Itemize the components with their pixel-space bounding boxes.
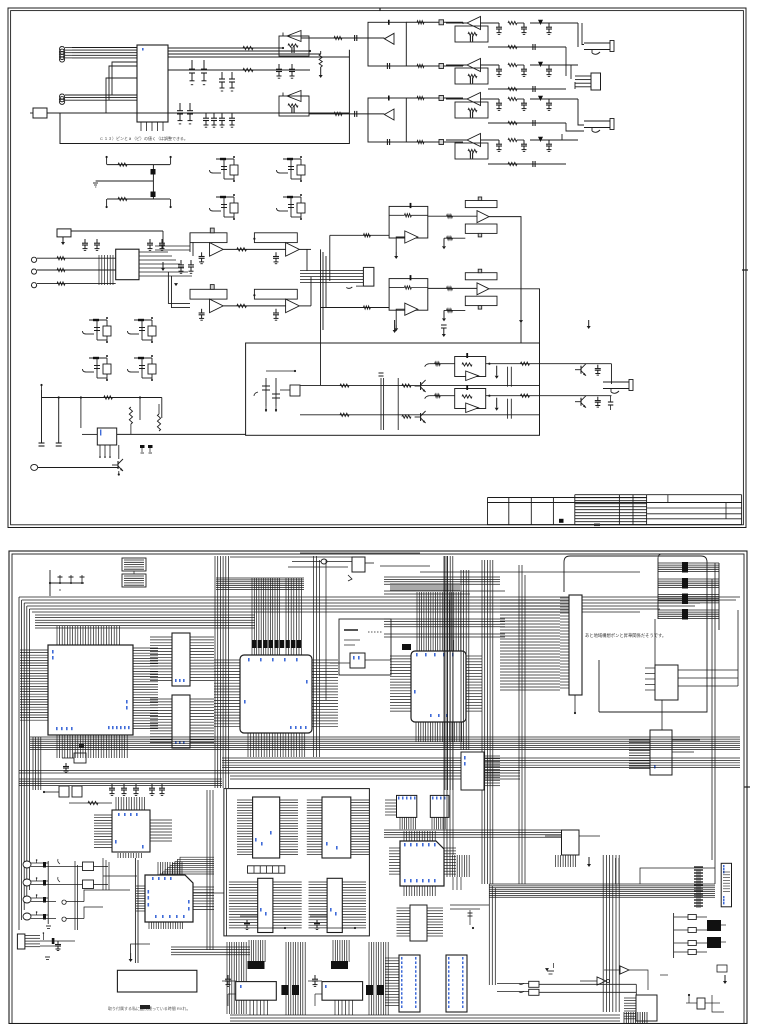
transistor Q11 [575,401,581,403]
X2 input hooks [31,257,36,262]
wire J1 lower input [444,237,465,239]
bottom DIP F2 [446,955,467,1012]
FET Q5 [103,326,111,336]
vertical bus right of U3 [313,556,315,757]
left feeder components [380,378,382,430]
DIP D3 body [258,878,273,932]
vertical bus center-left [214,556,216,788]
FET Q4 [297,203,305,213]
U3 left pin hatch [214,659,240,661]
D2 left hatch [307,799,322,801]
connector J1 input hooks [59,47,64,52]
bus mid-left down [32,737,34,790]
title block table [488,497,647,499]
voltage reference box [57,229,71,237]
U7 left pin hatch [136,885,145,887]
bus mid band extra [19,770,520,772]
D4 right hatch [342,881,366,883]
bus corner verticals [488,884,490,985]
diode D1 [538,20,543,25]
wire J1 output [489,217,521,343]
op-amp C1 with feedback loop [368,22,406,66]
transistor Q12 [415,385,421,387]
op-amp D2 output stage [446,64,467,66]
bus into E blocks [248,940,250,962]
wire J2 lower input [444,309,465,311]
capacitor C20 pair [140,445,145,448]
output jack JK2 [584,120,610,122]
wire D3 lower [488,122,566,124]
F1 left hatch [385,957,399,959]
box M2 [650,730,672,775]
wire D1 lower [488,46,566,48]
diode D4 [538,137,543,142]
U1 right pin hatch [133,647,158,649]
op-amp B2 [287,91,301,102]
U3 right pin hatch [312,659,338,661]
X1 bottom pin stubs [140,122,142,131]
U4 top pin bundle [416,592,418,651]
DIP pair bottom hatch [399,817,401,829]
IC U2B [172,695,190,748]
svg-text:取り付属する私に、: 取り付属する私に、 [108,1005,144,1011]
wire input H2 [321,307,390,309]
capacitor row on loop [205,113,207,118]
corner bundle U7 [160,874,214,875]
socket strip [248,866,285,873]
U4 left pin hatch [390,655,411,657]
U7 top pin bundle [157,862,159,875]
wire F1 to G1 [223,248,285,250]
X2 pin fan wires [98,255,100,285]
op-amp J2 [465,273,497,280]
bus second band [19,778,222,780]
resistor pack E1 [248,961,265,969]
wire loop enclosure right [564,556,707,712]
jack plugs bottom [529,981,539,987]
U9 pin stubs [403,831,405,841]
border fold tick marks [742,269,748,271]
vertical bundle column EL2 [285,942,287,1015]
X1 lower input bundle [59,94,64,99]
bus to K connector [300,270,363,272]
svg-text:C １３）ピンとａ（ピ）の値く（は調整できる。: C １３）ピンとａ（ピ）の値く（は調整できる。 [100,135,188,141]
op-amp L1 [455,357,486,377]
feeder lines into U3 bundle [216,577,304,579]
U11 left hatch [397,907,411,909]
U4 blue annotations [416,653,418,656]
bus to B5 [384,829,562,831]
wire loop lower enclosure [246,343,540,435]
wires bus up right [640,868,715,884]
vertical resistor R20 [129,407,132,424]
horizontal rail wire [42,397,162,399]
resistor ladder group [107,164,170,166]
bus groups with packs top-right [658,562,719,564]
op-amp D1 output stage [446,22,467,24]
vertical bundle column EL3 [368,942,370,1015]
long vertical wires right [443,556,445,877]
logic cluster right of U3 [339,619,391,675]
D3 right hatch [273,881,302,883]
wire bus J1 to X1 [72,47,137,49]
page 2 sheet border [9,551,747,1024]
wires rows to U6 [103,875,137,877]
transistor Q9 [112,464,118,466]
IC X1 [137,45,168,122]
DIP E2 wide body [322,982,363,1001]
U6 right wires [150,819,172,821]
wire D2 lower [488,88,566,90]
FET cluster M inside enclosure [265,378,267,406]
U5 left pin stubs [560,597,569,599]
capacitor pair right of X2 [180,260,182,265]
resistor ladder right [673,913,675,958]
label box empty [117,970,196,992]
D3 left hatch [229,881,258,883]
wire input L2 [425,396,430,399]
border tick page2 [744,786,750,788]
page 1 sheet border [8,8,746,528]
U6 left pin hatch [94,814,112,816]
bottom edge bus [230,1014,620,1016]
svg-text:あと地域構想ポンと昇華関係だそうです。: あと地域構想ポンと昇華関係だそうです。 [585,632,666,639]
connector P1 [33,108,47,118]
FET Q1 [230,165,238,175]
D3 bottom stubs [240,915,258,917]
top DIP pair right [397,795,417,817]
connector CN right [721,863,731,907]
U1 blue annotations [108,726,110,729]
D1 right hatch [280,799,298,801]
op-amp H1 integrator [389,206,428,238]
title block revision stripes [575,494,647,496]
op-amp D3 output stage [446,98,467,100]
DIP E1 wide body [236,982,277,1001]
op-amp J1 [465,201,497,208]
wires X2 to F1 [183,246,207,260]
pin header HD1 [122,558,146,571]
right vertical wires [714,563,716,884]
wire F2 to G2 [223,305,285,307]
vertical bus left of H blocks [320,249,322,385]
F2 top hatch [449,855,451,877]
U2A left pin hatch [150,636,172,638]
box B5 [562,830,580,855]
IC U3 QFP body [240,655,312,733]
left edge vertical bus [18,597,20,930]
resistor pack P4 [402,644,411,650]
U4 right pin hatch [466,655,482,657]
vertical resistor R21 [157,414,160,431]
op-amp F1 [190,233,227,243]
wire input H1 [330,234,389,236]
wires between F blocks [450,904,489,906]
IC U7 QFP body [145,875,193,922]
wires loop to M boxes [654,619,656,665]
U7 left vertical bus [134,858,136,963]
wire B2 to C2 [309,113,384,115]
capacitor bank top-left [50,582,84,584]
D2 right hatch [351,799,370,801]
X1 output wires [168,47,283,49]
bottom connector box [636,995,657,1021]
bottom DIP F1 [399,955,420,1012]
X3 ground pins [99,445,101,456]
vertical bus left of center block [206,790,208,950]
box U10 [461,752,484,790]
IC U6 top pins [115,797,117,810]
IC U5 vertical [569,595,582,695]
U3 top pin bundle [251,578,253,655]
resistor R network on X1 outputs [243,46,253,49]
U1 lower-left components [74,753,86,763]
bus band upper-right extra [384,590,505,592]
E2 side packs [366,985,373,995]
U9 blue annotations [404,843,406,846]
DIP D4 body [327,878,342,932]
IC X2 [116,249,139,280]
U2A right pin hatch [190,636,214,638]
U1 left pin hatch [20,649,48,651]
wire loops lower-left [193,892,224,894]
IC U11 [410,905,427,941]
wire J2 output [489,289,540,343]
wire X3 output long [117,433,246,435]
horizontal feeder bus to U1 [35,614,255,616]
wire output L2 [486,395,612,397]
resistor pack E2 [331,961,348,969]
hatch pack column HP [694,866,703,868]
connector K2 [591,73,601,90]
long wires upper right [420,571,640,573]
FET Q7 [103,364,111,374]
U4 bottom pin bundle [415,722,417,742]
op-amp G1 [254,233,297,243]
U11 right hatch [427,907,443,909]
U7 right wires [193,886,214,888]
vertical bus connector rows [47,861,49,924]
wire G outputs routing [306,249,308,271]
input connector rows [23,861,31,868]
wire enclosure center [224,789,370,936]
pin header HD2 [122,574,146,587]
filter cluster above U6 [59,786,69,797]
ground sym [546,967,548,969]
wires around logic cluster [330,662,350,664]
op-amp C2 with feedback loop [368,98,406,142]
wire jack feed [611,364,613,384]
op-amp D4 output stage [446,139,467,141]
wire output L1 [486,363,612,365]
X1 left side wires [112,62,137,95]
gate G1 cluster top [321,559,327,564]
bus loop corners upper-left [19,596,740,598]
vertical bus right-center [481,560,483,884]
title block stamp [559,519,564,523]
capacitor group C10 [84,239,86,243]
wire B1 to C1 [301,37,384,39]
transistor Q10 [575,369,581,371]
wire H1 to J1 [428,215,478,217]
wire loop around X1 block [47,112,349,114]
DIP D1 body [253,797,280,858]
D1 left hatch [237,799,253,801]
vertical bus center [444,556,446,790]
ground stubs top [394,320,396,330]
diode D2 [538,62,543,67]
E row left caps [227,975,229,979]
IC U6 body [112,810,150,852]
FET Q6 [148,326,156,336]
capacitor C B-stage decoupling [278,64,280,69]
X2 output wires [139,251,168,253]
diode D3 [538,96,543,101]
vertical resistor R5 [320,51,322,54]
vertical bus bottom center [602,855,604,1012]
bus top center [230,556,352,558]
wire D-row collectors [577,23,579,47]
power rail verticals [41,390,43,443]
IC U9 QFP body [400,841,444,886]
U7 bottom pin bundle [148,922,150,929]
box M1 [655,665,678,700]
IC U2A [172,633,190,686]
capacitor C group below X1 outputs [191,60,193,69]
IC U1 top pin bundle [56,626,58,645]
U3 bottom pin bundle [247,733,249,757]
wide bus mid page [30,736,740,738]
vertical bundle column EL1 [226,942,228,1014]
connector P2 bottom-left [17,934,25,949]
op-amp B1 [287,31,301,42]
resistor pack row above U3 [252,640,256,648]
op-amp H2 integrator [389,279,428,311]
E1 side packs [281,985,288,995]
U7 blue annotations [148,890,150,894]
U1 bottom pin bundle [56,735,58,758]
U3 blue annotations [248,658,250,661]
transistor Q13 [415,416,421,418]
U6 bottom pin bundle [117,853,119,858]
IC U4 QFP body [411,651,466,722]
E bottom stubs [249,1000,251,1015]
wire H2 to J2 [428,287,478,289]
comparator cluster [597,977,606,985]
wire C1 outputs to D rows [406,21,463,23]
IC X3 [97,428,116,445]
ground stub J2 [520,319,522,321]
logic bits bottom right [697,998,705,1009]
output jack JK1 [584,42,610,44]
bus upper-right quadrant [384,576,500,578]
wire input L1 [425,364,430,367]
wide bus lower right [489,883,715,885]
DIP D2 body [322,797,351,858]
title block right fields [647,494,742,496]
misc wires center [368,789,370,936]
connector K [363,267,374,286]
output jack JK3 [603,381,629,383]
IC U1 QFP body [48,645,133,735]
U2B right pin hatch [190,698,214,700]
op-amp G2 [254,289,297,299]
feeder bus into U5 [500,599,560,601]
wire D4 lower [488,163,566,165]
FET Q2 [297,165,305,175]
wire C2 outputs to D rows [406,97,463,99]
capacitor C30 [608,401,613,403]
FET Q8 [148,364,156,374]
FET Q3 [230,203,238,213]
wires inside enclosure [300,385,540,387]
op-amp L2 [455,389,486,409]
bottom edge connector [623,1012,625,1023]
U2B left pin hatch [150,698,172,700]
D4 left hatch [309,881,328,883]
op-amp F2 [190,289,227,299]
